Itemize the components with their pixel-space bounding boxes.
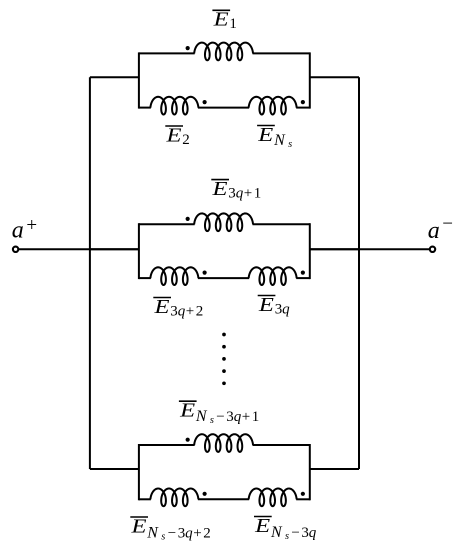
svg-text:3: 3: [275, 302, 283, 318]
svg-text:−: −: [442, 214, 453, 235]
svg-text:E: E: [212, 9, 228, 31]
svg-text:3: 3: [178, 526, 186, 542]
svg-text:a: a: [428, 218, 440, 244]
svg-text:a: a: [12, 217, 24, 243]
svg-text:3: 3: [226, 409, 234, 425]
svg-text:3: 3: [301, 525, 309, 541]
svg-text:−: −: [168, 526, 176, 542]
svg-text:2: 2: [196, 304, 204, 320]
svg-text:q: q: [236, 186, 244, 202]
svg-text:E: E: [258, 294, 274, 316]
svg-text:3: 3: [228, 186, 236, 202]
svg-text:q: q: [309, 525, 317, 541]
svg-text:+: +: [186, 304, 194, 320]
svg-text:E: E: [257, 124, 273, 146]
svg-text:N: N: [270, 524, 283, 541]
svg-text:E: E: [211, 178, 227, 200]
svg-text:1: 1: [254, 186, 261, 202]
svg-text:+: +: [26, 215, 37, 236]
svg-text:N: N: [146, 525, 159, 542]
svg-text:s: s: [285, 531, 289, 542]
svg-text:2: 2: [203, 526, 211, 542]
svg-text:+: +: [244, 186, 252, 202]
svg-text:E: E: [130, 515, 146, 537]
svg-text:q: q: [282, 302, 290, 318]
svg-text:1: 1: [252, 409, 259, 425]
svg-text:3: 3: [170, 304, 178, 320]
svg-text:−: −: [291, 525, 299, 541]
svg-text:E: E: [165, 124, 181, 146]
svg-text:s: s: [288, 139, 292, 150]
svg-text:E: E: [254, 515, 270, 537]
svg-text:E: E: [153, 296, 169, 318]
svg-text:N: N: [195, 408, 208, 425]
svg-text:E: E: [179, 400, 195, 422]
svg-text:q: q: [178, 304, 186, 320]
svg-text:1: 1: [229, 16, 237, 32]
svg-text:N: N: [273, 132, 286, 149]
svg-text:−: −: [216, 409, 224, 425]
svg-text:+: +: [242, 409, 250, 425]
svg-text:q: q: [185, 526, 193, 542]
svg-text:s: s: [161, 532, 165, 543]
svg-text:q: q: [234, 409, 242, 425]
svg-text:2: 2: [182, 132, 190, 148]
svg-text:s: s: [210, 415, 214, 426]
svg-text:+: +: [193, 526, 201, 542]
